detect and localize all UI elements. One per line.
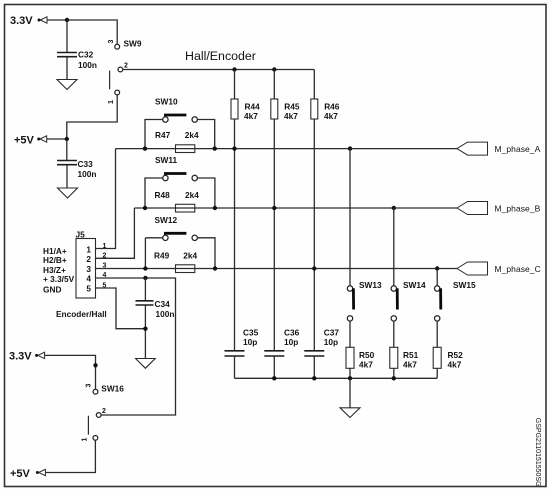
svg-text:3.3V: 3.3V bbox=[10, 15, 33, 27]
svg-text:SW16: SW16 bbox=[101, 384, 124, 394]
wire SW9 pin2 to pull-up rail bbox=[123, 69, 314, 71]
junction +5V node bbox=[65, 137, 69, 141]
resistor R44 bbox=[231, 99, 260, 121]
svg-text:2: 2 bbox=[124, 63, 128, 70]
svg-text:4k7: 4k7 bbox=[284, 111, 298, 121]
wire R51 to rail bbox=[393, 368, 395, 378]
svg-text:+5V: +5V bbox=[14, 134, 35, 146]
svg-text:4k7: 4k7 bbox=[324, 111, 338, 121]
svg-text:SW12: SW12 bbox=[155, 215, 178, 225]
wire C33 to ground bbox=[66, 165, 68, 188]
wire rail corner to R46 bbox=[313, 70, 315, 100]
wire rail to R45 bbox=[273, 70, 275, 100]
svg-text:4: 4 bbox=[86, 274, 91, 284]
wire row A to J5 pin1 bbox=[96, 149, 116, 249]
wire J5 pin4 stub to SW16 pin2 bbox=[96, 278, 176, 415]
svg-text:M_phase_A: M_phase_A bbox=[495, 144, 541, 154]
svg-text:2: 2 bbox=[102, 408, 106, 415]
net +5V (bottom) power flag bbox=[10, 468, 45, 480]
svg-text:R46: R46 bbox=[324, 102, 340, 112]
junction row A / SW10 right bbox=[213, 146, 217, 150]
wire C37 bottom bbox=[313, 356, 315, 378]
resistor R45 bbox=[271, 99, 300, 121]
capacitor C32 bbox=[57, 50, 97, 71]
svg-text:4k7: 4k7 bbox=[448, 360, 462, 370]
junction row B / SW14 column bbox=[392, 206, 396, 210]
junction rail / R51 bbox=[392, 376, 396, 380]
wire R52 to rail bbox=[436, 368, 438, 378]
svg-text:C36: C36 bbox=[284, 328, 300, 338]
svg-text:3: 3 bbox=[103, 263, 107, 270]
switch SW16 bbox=[88, 384, 124, 441]
connector J5 bbox=[76, 230, 96, 299]
svg-text:R44: R44 bbox=[245, 102, 261, 112]
svg-text:1: 1 bbox=[82, 438, 89, 442]
wire R45 to row B and C36 bbox=[273, 119, 275, 351]
junction pin4 / C34 bbox=[143, 276, 147, 280]
svg-text:2k4: 2k4 bbox=[183, 251, 197, 261]
svg-text:R47: R47 bbox=[155, 130, 171, 140]
wire rail to ground bbox=[349, 378, 351, 408]
svg-text:4k7: 4k7 bbox=[403, 360, 417, 370]
capacitor C33 bbox=[57, 159, 96, 179]
net +5V (top) power flag bbox=[14, 134, 47, 146]
switch SW15 bbox=[435, 269, 476, 322]
svg-text:J5: J5 bbox=[76, 230, 86, 240]
connector flag M_phase_B bbox=[457, 202, 541, 215]
svg-text:3: 3 bbox=[108, 40, 115, 44]
svg-text:100n: 100n bbox=[78, 169, 97, 179]
svg-text:10p: 10p bbox=[243, 337, 257, 347]
resistor R51 bbox=[390, 347, 419, 369]
junction row B / SW11 left bbox=[143, 206, 147, 210]
svg-text:H2/B+: H2/B+ bbox=[43, 255, 67, 265]
wire C34 bottom to ground bbox=[144, 305, 146, 358]
resistor R47 bbox=[155, 130, 199, 152]
wire R44 to row A and C35 bbox=[234, 119, 236, 351]
wire C35 bottom bbox=[234, 356, 236, 378]
svg-text:GND: GND bbox=[43, 284, 61, 294]
wire row B (M_phase_B net) bbox=[134, 207, 457, 209]
junction row B / R45 column bbox=[272, 206, 276, 210]
svg-text:SW13: SW13 bbox=[359, 280, 382, 290]
svg-text:+5V: +5V bbox=[10, 468, 31, 480]
junction on 3.3V wire at C32 bbox=[65, 18, 69, 22]
junction rail / C37 bbox=[312, 376, 316, 380]
resistor R49 bbox=[154, 251, 198, 273]
junction row A / SW10 left bbox=[143, 146, 147, 150]
resistor R52 bbox=[433, 347, 463, 369]
svg-text:SW14: SW14 bbox=[403, 280, 426, 290]
svg-text:Hall/Encoder: Hall/Encoder bbox=[185, 49, 256, 63]
wire SW16 pin1 to +5V bbox=[46, 440, 96, 472]
wire C32 to ground bbox=[66, 57, 68, 80]
junction GND net bbox=[143, 327, 147, 331]
capacitor C36 bbox=[264, 328, 299, 357]
svg-text:M_phase_B: M_phase_B bbox=[495, 204, 541, 214]
svg-text:3.3V: 3.3V bbox=[9, 351, 32, 363]
resistor R46 bbox=[311, 99, 340, 121]
switch SW11 bbox=[145, 155, 215, 208]
wire 3.3V to SW16 pin3 bbox=[45, 355, 96, 389]
svg-text:4k7: 4k7 bbox=[359, 360, 373, 370]
svg-text:R49: R49 bbox=[154, 251, 170, 261]
switch SW12 bbox=[145, 215, 215, 269]
wire SW15 to R52 bbox=[436, 321, 438, 347]
svg-text:5: 5 bbox=[86, 284, 91, 294]
capacitor C34 bbox=[136, 299, 175, 319]
svg-text:2k4: 2k4 bbox=[185, 130, 199, 140]
connector flag M_phase_C bbox=[457, 262, 541, 275]
svg-text:C35: C35 bbox=[243, 328, 259, 338]
ground (C33) bbox=[58, 188, 78, 198]
svg-text:C32: C32 bbox=[78, 50, 94, 60]
svg-text:R51: R51 bbox=[403, 350, 419, 360]
wire 3.3V to SW9 pin3 bbox=[48, 20, 118, 44]
switch SW14 bbox=[391, 208, 426, 321]
junction row A / SW13 column bbox=[348, 146, 352, 150]
net 3.3V (top) power flag bbox=[10, 15, 47, 27]
svg-text:R48: R48 bbox=[155, 190, 171, 200]
svg-text:100n: 100n bbox=[156, 309, 175, 319]
J5 pin numbers inside bbox=[86, 245, 91, 294]
svg-text:10p: 10p bbox=[284, 337, 298, 347]
svg-text:C37: C37 bbox=[324, 328, 340, 338]
svg-text:C34: C34 bbox=[155, 299, 171, 309]
wire SW14 to R51 bbox=[393, 321, 395, 347]
svg-text:+ 3.3/5V: + 3.3/5V bbox=[43, 274, 75, 284]
svg-text:100n: 100n bbox=[78, 60, 97, 70]
wire row C (M_phase_C net) bbox=[96, 268, 458, 270]
wire R46 to row C and C37 bbox=[313, 119, 315, 351]
svg-text:SW11: SW11 bbox=[155, 155, 178, 165]
svg-text:3: 3 bbox=[86, 264, 91, 274]
svg-text:Encoder/Hall: Encoder/Hall bbox=[56, 309, 107, 319]
ground (bottom rail) bbox=[340, 408, 360, 418]
svg-text:SW10: SW10 bbox=[155, 96, 178, 106]
junction on SW16 pin3 wire bbox=[93, 363, 97, 367]
switch SW9 bbox=[110, 39, 142, 95]
wire C36 bottom bbox=[273, 356, 275, 378]
svg-text:2: 2 bbox=[103, 253, 107, 260]
wire rail to R44 bbox=[234, 70, 236, 100]
svg-text:R50: R50 bbox=[359, 350, 375, 360]
svg-text:2: 2 bbox=[86, 254, 91, 264]
wire C33 top bbox=[66, 139, 68, 160]
junction rail / R50 ground stem bbox=[348, 376, 352, 380]
junction row B / SW11 right bbox=[213, 206, 217, 210]
wire bottom ground rail bbox=[235, 377, 438, 379]
wire J5 pin5 (GND) to C34 bottom bbox=[96, 288, 146, 329]
J5 signal names bbox=[43, 246, 75, 294]
wire +5V to junction bbox=[47, 138, 67, 140]
svg-text:C33: C33 bbox=[78, 159, 94, 169]
wire row B to J5 pin2 bbox=[96, 208, 135, 258]
svg-text:R45: R45 bbox=[284, 102, 300, 112]
junction rail R44 bbox=[232, 67, 236, 71]
wire SW9 pin1 to +5V node bbox=[67, 95, 117, 139]
switch SW13 bbox=[347, 149, 382, 321]
junction row C / SW12 left bbox=[143, 266, 147, 270]
junction rail / C36 bbox=[272, 376, 276, 380]
svg-text:1: 1 bbox=[108, 100, 115, 104]
capacitor C37 bbox=[304, 328, 339, 357]
svg-text:SW15: SW15 bbox=[453, 280, 476, 290]
junction row A / R44 column bbox=[232, 146, 236, 150]
connector flag M_phase_A bbox=[457, 142, 541, 155]
resistor R50 bbox=[346, 347, 375, 369]
junction row C / SW15 column bbox=[435, 266, 439, 270]
junction row C / R46 column bbox=[312, 266, 316, 270]
svg-text:GSPG2110151550SG: GSPG2110151550SG bbox=[534, 418, 541, 487]
ground (C34) bbox=[136, 359, 156, 369]
svg-text:M_phase_C: M_phase_C bbox=[495, 264, 541, 274]
svg-text:1: 1 bbox=[86, 245, 91, 255]
wire C32 top bbox=[66, 20, 68, 52]
switch SW10 bbox=[145, 96, 215, 148]
wire SW13 to R50 bbox=[349, 321, 351, 347]
svg-text:2k4: 2k4 bbox=[185, 190, 199, 200]
resistor R48 bbox=[155, 190, 200, 212]
svg-text:4k7: 4k7 bbox=[244, 111, 258, 121]
junction rail R45 bbox=[272, 67, 276, 71]
svg-text:3: 3 bbox=[86, 384, 93, 388]
wire R50 to rail bbox=[349, 368, 351, 378]
svg-text:R52: R52 bbox=[448, 350, 464, 360]
svg-text:10p: 10p bbox=[324, 337, 338, 347]
junction row C / SW12 right bbox=[213, 266, 217, 270]
capacitor C35 bbox=[225, 328, 259, 357]
wire C34 top bbox=[144, 278, 146, 300]
svg-text:SW9: SW9 bbox=[124, 39, 142, 49]
net 3.3V (bottom) power flag bbox=[9, 351, 45, 363]
svg-text:1: 1 bbox=[103, 243, 107, 250]
wire row A (M_phase_A net) bbox=[116, 148, 458, 150]
ground (C32) bbox=[57, 80, 77, 90]
